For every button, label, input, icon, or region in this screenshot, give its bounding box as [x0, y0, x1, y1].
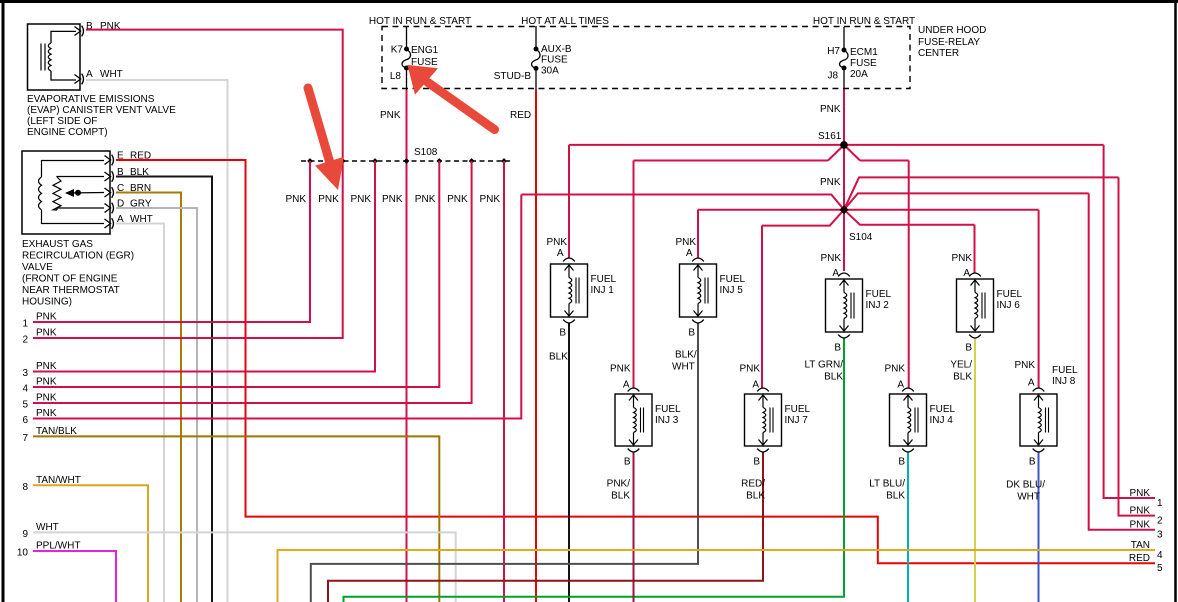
page border frame [0, 0, 1178, 3]
dashed box under hood fuse-relay center [382, 27, 910, 89]
fuse AUX-B 30A (STUD-B) [535, 26, 537, 49]
wire PNK S161 to FUEL INJ 1 pin A [568, 145, 570, 258]
svg-text:HOT IN RUN & START: HOT IN RUN & START [813, 16, 915, 27]
svg-text:FUEL: FUEL [997, 289, 1023, 300]
EGR wiper arrow with junction dot [66, 192, 104, 195]
svg-text:PNK: PNK [36, 377, 57, 388]
svg-text:ECM1: ECM1 [850, 47, 878, 58]
svg-text:PNK: PNK [36, 361, 57, 372]
svg-text:ENGINE COMPT): ENGINE COMPT) [27, 127, 108, 138]
svg-text:HOUSING): HOUSING) [22, 297, 72, 308]
svg-text:BLK: BLK [746, 491, 765, 502]
svg-text:A: A [832, 268, 839, 279]
svg-text:INJ 8: INJ 8 [1052, 376, 1076, 387]
svg-text:B: B [965, 343, 972, 354]
wire RED from AUX-B fuse to bottom [535, 90, 537, 602]
svg-text:PNK: PNK [36, 312, 57, 323]
wire LT BLU/BLK from FUEL INJ 4 pin B to bottom [907, 452, 909, 602]
svg-text:EXHAUST GAS: EXHAUST GAS [22, 239, 93, 250]
svg-text:L8: L8 [390, 71, 402, 82]
splice S108 junction dot 2 [340, 158, 346, 164]
wire PNK S104 to FUEL INJ 6 pin A [974, 225, 976, 273]
wire PNK S161 to right terminal 1 [1104, 145, 1155, 498]
svg-text:PNK: PNK [318, 194, 339, 205]
svg-text:S108: S108 [414, 147, 438, 158]
svg-text:B: B [688, 328, 695, 339]
splice S104 junction dot [840, 205, 849, 214]
svg-text:A: A [86, 69, 93, 80]
red annotation arrow pointing to S108 PNK wires [308, 88, 330, 161]
svg-text:TAN: TAN [1131, 540, 1150, 551]
svg-text:B: B [753, 457, 760, 468]
svg-text:PNK: PNK [1129, 488, 1150, 499]
svg-text:(LEFT SIDE OF: (LEFT SIDE OF [27, 116, 97, 127]
wire PNK S161 to FUEL INJ 4 pin A [908, 161, 910, 389]
svg-text:PNK: PNK [286, 194, 307, 205]
svg-text:PNK: PNK [480, 194, 501, 205]
svg-text:PNK: PNK [36, 408, 57, 419]
svg-text:HOT IN RUN & START: HOT IN RUN & START [369, 16, 471, 27]
injector INJ2 (FUEL INJ 2) [826, 279, 863, 332]
svg-text:NEAR THERMOSTAT: NEAR THERMOSTAT [22, 285, 120, 296]
wire PNK S108 drop 1 to terminal 1 [33, 161, 310, 322]
wire BLK from EGR pin B to bottom [116, 177, 212, 602]
svg-text:B: B [559, 328, 566, 339]
svg-text:H7: H7 [827, 46, 840, 57]
svg-text:WHT: WHT [672, 362, 695, 373]
svg-text:B: B [624, 457, 631, 468]
svg-text:4: 4 [22, 384, 28, 395]
injector INJ5 (FUEL INJ 5) [680, 264, 717, 317]
svg-text:5: 5 [22, 400, 28, 411]
svg-text:RED: RED [1129, 553, 1150, 564]
EVAP solenoid coil [40, 44, 42, 71]
svg-text:PNK: PNK [610, 364, 631, 375]
svg-text:FUSE: FUSE [541, 55, 568, 66]
svg-text:(EVAP) CANISTER VENT VALVE: (EVAP) CANISTER VENT VALVE [27, 105, 176, 116]
svg-text:J8: J8 [827, 71, 838, 82]
svg-text:DK BLU/: DK BLU/ [1006, 480, 1045, 491]
svg-text:PNK: PNK [820, 253, 841, 264]
svg-text:INJ 6: INJ 6 [997, 300, 1021, 311]
wire WHT from EVAP pin A to bottom [86, 80, 228, 602]
wire PNK S104 to FUEL INJ 7 pin A [761, 226, 763, 388]
wire TAN/WHT terminal 8 to bottom [33, 485, 148, 602]
svg-text:FUEL: FUEL [720, 274, 746, 285]
svg-text:A: A [897, 380, 904, 391]
svg-text:1: 1 [1157, 498, 1163, 509]
wire BRN from EGR pin C to bottom [116, 193, 181, 602]
wire LT GRN/BLK from FUEL INJ 2 pin B [344, 338, 845, 602]
wire PNK S108 drop 2 to terminal 2 [33, 161, 343, 338]
wire PNK S104 to FUEL INJ 5 pin A [697, 210, 699, 258]
splice S161 junction dot [840, 141, 848, 149]
svg-text:TAN/BLK: TAN/BLK [36, 426, 77, 437]
svg-text:1: 1 [22, 319, 28, 330]
svg-text:INJ 4: INJ 4 [930, 415, 954, 426]
svg-text:BLK/: BLK/ [675, 350, 697, 361]
svg-text:TAN/WHT: TAN/WHT [36, 475, 81, 486]
svg-text:PNK: PNK [415, 194, 436, 205]
svg-text:B: B [898, 457, 905, 468]
svg-text:10: 10 [17, 548, 29, 559]
splice S108 junction dot 7 [501, 158, 507, 164]
svg-text:A: A [557, 248, 564, 259]
svg-text:BLK: BLK [953, 372, 972, 383]
svg-text:BLK: BLK [886, 491, 905, 502]
svg-text:B: B [834, 343, 841, 354]
svg-text:3: 3 [1157, 530, 1163, 541]
wire PNK from ECM1 fuse to S161 and S104 and FUEL INJ 2 [843, 90, 845, 271]
svg-text:PNK: PNK [351, 194, 372, 205]
svg-text:30A: 30A [541, 66, 559, 77]
splice S108 junction dot 5 [436, 158, 442, 164]
wire BLK/WHT from FUEL INJ 5 pin B [311, 323, 698, 602]
svg-text:9: 9 [22, 529, 28, 540]
wire WHT terminal 9 to bottom [33, 532, 456, 602]
svg-text:A: A [752, 380, 759, 391]
fuse ENG1 (K7/L8) [406, 26, 408, 49]
svg-text:FUEL: FUEL [785, 404, 811, 415]
svg-text:INJ 3: INJ 3 [655, 415, 679, 426]
svg-text:PNK: PNK [36, 328, 57, 339]
wire PNK S108 drop 5 to terminal 4 [33, 161, 439, 387]
EGR pin A connector [105, 219, 111, 228]
svg-text:LT BLU/: LT BLU/ [869, 479, 905, 490]
svg-text:INJ 1: INJ 1 [591, 285, 615, 296]
svg-text:EVAPORATIVE EMISSIONS: EVAPORATIVE EMISSIONS [27, 94, 155, 105]
fuse ECM1 20A (H7/J8) [843, 27, 845, 50]
injector INJ6 (FUEL INJ 6) [957, 279, 994, 332]
svg-text:INJ 2: INJ 2 [866, 300, 890, 311]
svg-text:PNK: PNK [36, 393, 57, 404]
svg-text:RECIRCULATION (EGR): RECIRCULATION (EGR) [22, 251, 134, 262]
svg-text:PNK: PNK [675, 237, 696, 248]
svg-text:20A: 20A [850, 69, 868, 80]
wire PNK/BLK from FUEL INJ 3 pin B to bottom [633, 452, 635, 602]
EGR pin D connector [105, 204, 111, 213]
svg-text:A: A [686, 248, 693, 259]
splice S108 junction dot 1 [307, 158, 313, 164]
svg-text:PNK: PNK [447, 194, 468, 205]
svg-text:FUSE-RELAY: FUSE-RELAY [918, 37, 980, 48]
wire PNK S108 drop 6 to terminal 5 [33, 161, 472, 403]
injector INJ1 (FUEL INJ 1) [551, 264, 588, 317]
svg-text:S161: S161 [818, 131, 842, 142]
svg-text:PNK: PNK [1129, 506, 1150, 517]
svg-text:INJ 7: INJ 7 [785, 415, 809, 426]
wire TAN/BLK terminal 7 to bottom [33, 436, 439, 602]
wire PNK S104 to right terminal 2 [1119, 177, 1156, 515]
injector INJ3 (FUEL INJ 3) [615, 394, 652, 446]
wire TAN from bottom to right terminal 4 [278, 550, 1156, 602]
svg-text:(FRONT OF ENGINE: (FRONT OF ENGINE [22, 274, 118, 285]
svg-text:CENTER: CENTER [918, 48, 959, 59]
svg-text:WHT: WHT [36, 522, 59, 533]
svg-text:HOT AT ALL TIMES: HOT AT ALL TIMES [521, 16, 609, 27]
svg-text:BLK: BLK [549, 352, 568, 363]
svg-text:A: A [623, 380, 630, 391]
wire WHT from EGR pin A to bottom [116, 224, 164, 602]
svg-text:LT GRN/: LT GRN/ [804, 360, 843, 371]
svg-text:6: 6 [22, 415, 28, 426]
svg-text:UNDER HOOD: UNDER HOOD [918, 25, 986, 36]
svg-text:4: 4 [1157, 550, 1163, 561]
svg-text:WHT: WHT [1017, 492, 1040, 503]
svg-text:AUX-B: AUX-B [541, 44, 572, 55]
svg-text:K7: K7 [391, 45, 404, 56]
svg-text:PNK: PNK [382, 194, 403, 205]
splice S108 dashed bus [301, 160, 511, 162]
svg-text:2: 2 [22, 335, 28, 346]
svg-text:VALVE: VALVE [22, 262, 53, 273]
EVAP pin B connector [75, 27, 81, 36]
injector INJ8 (FUEL INJ 8) [1020, 394, 1057, 446]
svg-text:BLK: BLK [824, 372, 843, 383]
svg-text:ENG1: ENG1 [411, 45, 439, 56]
wire RED/BLK from FUEL INJ 7 pin B [328, 452, 763, 602]
wire PNK terminal 6 to S104 [33, 195, 521, 419]
svg-text:FUEL: FUEL [655, 404, 681, 415]
svg-text:BLK: BLK [611, 491, 630, 502]
svg-text:INJ 5: INJ 5 [720, 285, 744, 296]
svg-text:7: 7 [22, 433, 28, 444]
svg-text:5: 5 [1157, 563, 1163, 574]
svg-text:3: 3 [22, 368, 28, 379]
EGR internal resistor zigzag [53, 177, 61, 210]
svg-text:STUD-B: STUD-B [494, 71, 532, 82]
svg-text:S104: S104 [849, 232, 873, 243]
wire BLK from FUEL INJ 1 pin B to bottom [568, 323, 570, 602]
svg-text:PNK: PNK [380, 110, 401, 121]
wire PNK from EVAP pin B to S108 splice [86, 30, 343, 161]
wire PNK S161 to FUEL INJ 3 pin A [633, 161, 635, 389]
svg-text:FUEL: FUEL [930, 404, 956, 415]
svg-text:PNK: PNK [739, 364, 760, 375]
svg-text:FUEL: FUEL [866, 289, 892, 300]
svg-text:A: A [1028, 378, 1035, 389]
EGR pin E connector [105, 156, 111, 165]
EVAP canister vent valve U1 box [28, 24, 81, 90]
svg-text:PNK/: PNK/ [607, 479, 631, 490]
svg-text:YEL/: YEL/ [950, 360, 972, 371]
wire PNK S104 to right terminal 3 [1089, 193, 1155, 529]
EGR pin B connector [105, 172, 111, 181]
splice S108 junction dot 3 [372, 158, 378, 164]
EGR internal leads [42, 161, 105, 178]
injector INJ4 (FUEL INJ 4) [890, 394, 927, 446]
svg-text:PNK: PNK [546, 237, 567, 248]
svg-text:FUEL: FUEL [1052, 365, 1078, 376]
svg-text:PNK: PNK [820, 104, 841, 115]
svg-text:RED: RED [510, 110, 531, 121]
splice S161 wires [569, 144, 844, 146]
wire DK BLU/WHT from FUEL INJ 8 pin B to bottom [1038, 452, 1040, 602]
wire PNK from ENG1 fuse to S108 and bottom [406, 90, 408, 602]
wire PNK S108 drop 3 to terminal 3 [33, 161, 375, 372]
svg-text:WHT: WHT [100, 69, 123, 80]
svg-text:PNK: PNK [884, 364, 905, 375]
svg-text:PNK: PNK [820, 177, 841, 188]
EGR valve box [22, 151, 110, 234]
svg-text:B: B [1029, 457, 1036, 468]
EVAP pin A connector [75, 75, 81, 84]
splice S108 junction dot 6 [469, 158, 475, 164]
svg-text:RED/: RED/ [741, 479, 765, 490]
svg-text:FUEL: FUEL [591, 274, 617, 285]
svg-text:PNK: PNK [1014, 360, 1035, 371]
svg-text:PNK: PNK [1129, 520, 1150, 531]
wire GRY from EGR pin D to bottom [116, 208, 197, 602]
wire RED from EGR pin E [116, 160, 1155, 563]
injector INJ7 (FUEL INJ 7) [745, 394, 782, 446]
svg-text:2: 2 [1157, 516, 1163, 527]
svg-text:FUSE: FUSE [850, 58, 877, 69]
EGR pin C connector [105, 188, 111, 197]
red annotation arrow pointing to ENG1 fuse [428, 83, 495, 130]
svg-text:8: 8 [22, 482, 28, 493]
EGR internal coil [39, 177, 42, 210]
splice S104 wires [844, 177, 1119, 209]
svg-text:A: A [963, 268, 970, 279]
wire PNK S108 drop 7 to bottom [503, 161, 505, 602]
svg-text:PPL/WHT: PPL/WHT [36, 541, 80, 552]
wire YEL/BLK from FUEL INJ 6 pin B to bottom [974, 338, 976, 602]
wire PPL/WHT terminal 10 to bottom [33, 551, 116, 602]
svg-text:PNK: PNK [951, 253, 972, 264]
splice S108 junction dot 4 [404, 158, 410, 164]
wire PNK S104 to FUEL INJ 8 pin A [1038, 210, 1040, 388]
